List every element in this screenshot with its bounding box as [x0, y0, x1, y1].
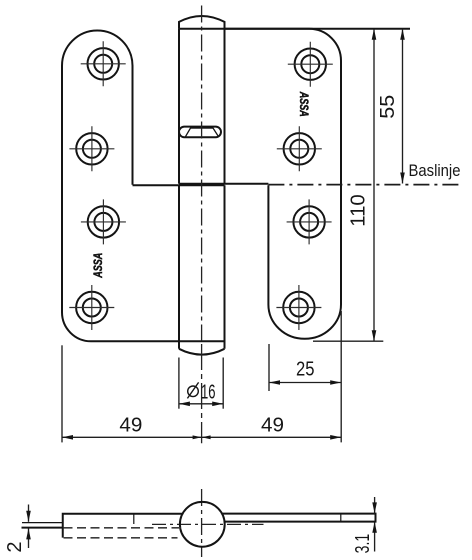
svg-text:16: 16 [201, 381, 216, 403]
svg-text:110: 110 [348, 194, 370, 227]
svg-text:ASSA: ASSA [93, 253, 105, 279]
svg-text:Baslinje: Baslinje [409, 161, 461, 180]
svg-text:49: 49 [261, 414, 284, 436]
svg-text:55: 55 [377, 95, 399, 119]
svg-text:2: 2 [4, 541, 26, 552]
svg-text:25: 25 [296, 359, 315, 381]
svg-text:3.1: 3.1 [352, 534, 374, 554]
svg-text:ASSA: ASSA [297, 91, 309, 117]
svg-text:49: 49 [119, 414, 142, 436]
